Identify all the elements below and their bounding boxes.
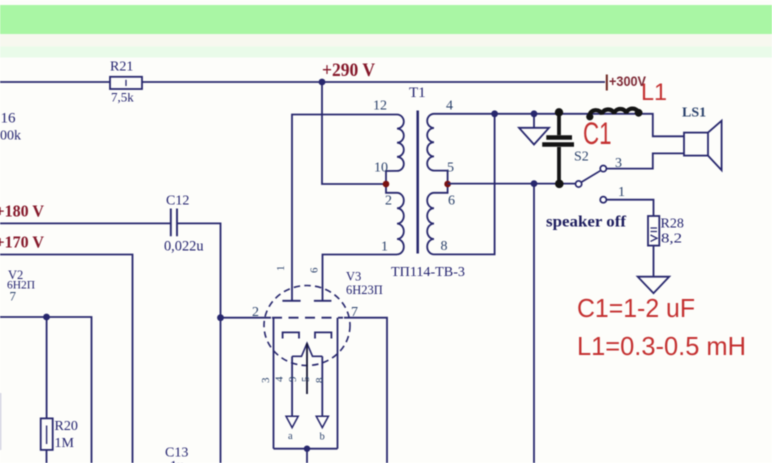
T1 secondary winding upper (pins 4-5) bbox=[427, 114, 447, 181]
junction dot ground branch bbox=[531, 110, 538, 117]
wire contact3 to speaker bottom bbox=[606, 153, 684, 168]
wire top rail left of R21 bbox=[0, 81, 110, 83]
junction grid node bbox=[217, 314, 224, 321]
T1 primary winding lower (pins 2-1) bbox=[386, 187, 404, 254]
svg-text:+180 V: +180 V bbox=[0, 202, 45, 221]
switch S2 pole bbox=[576, 181, 582, 187]
svg-text:R20: R20 bbox=[55, 419, 78, 434]
wire secondary top rail to speaker bbox=[434, 114, 684, 137]
wire +290V to primary centre tap bbox=[322, 82, 384, 184]
svg-text:S2: S2 bbox=[574, 150, 589, 165]
svg-text:6Н23П: 6Н23П bbox=[346, 283, 383, 297]
resistor R20 bbox=[41, 418, 53, 450]
svg-text:V3: V3 bbox=[346, 270, 361, 284]
svg-text:9: 9 bbox=[287, 376, 299, 382]
svg-text:LS1: LS1 bbox=[682, 106, 706, 121]
svg-text:+290 V: +290 V bbox=[322, 60, 375, 81]
V3 left anode plate bbox=[282, 300, 300, 302]
heater lead a bbox=[291, 356, 293, 416]
wire T1 pin12 to V3 left anode bbox=[292, 115, 397, 301]
wire grid node to V3 bbox=[221, 317, 272, 319]
svg-text:speaker off: speaker off bbox=[546, 214, 627, 231]
svg-text:+300V: +300V bbox=[609, 73, 647, 89]
svg-text:2: 2 bbox=[385, 194, 392, 209]
svg-text:T1: T1 bbox=[409, 85, 426, 101]
heater continuation arrow b bbox=[316, 416, 328, 427]
svg-text:4: 4 bbox=[274, 376, 286, 382]
capacitor C1 (hand-drawn black) bbox=[542, 108, 574, 188]
svg-text:6: 6 bbox=[309, 267, 321, 273]
ground (secondary top) bbox=[519, 114, 549, 145]
svg-text:+170 V: +170 V bbox=[0, 233, 45, 252]
junction secondary tap (red) bbox=[444, 181, 451, 188]
partial wire at left edge bbox=[0, 393, 2, 450]
T1 secondary winding lower (pins 6-8) bbox=[427, 187, 447, 254]
V3 heater centre tap (pin 9) bbox=[306, 343, 308, 394]
svg-text:a: a bbox=[288, 431, 293, 442]
wire to R20 bbox=[46, 317, 48, 418]
svg-text:C1=1-2 uF: C1=1-2 uF bbox=[577, 295, 695, 323]
svg-text:5: 5 bbox=[300, 376, 312, 382]
wire R28 to ground bbox=[653, 246, 655, 277]
wire contact1 to R28 bbox=[606, 200, 653, 216]
svg-text:R28: R28 bbox=[661, 217, 684, 232]
ground (R28) bbox=[638, 277, 670, 294]
junction R20 node bbox=[43, 314, 50, 321]
wire V3 cathode pin8 bbox=[337, 318, 339, 449]
wire V3 cathode pin3 bbox=[273, 318, 275, 449]
svg-text:4: 4 bbox=[446, 99, 453, 114]
wire secondary mid rail bbox=[448, 183, 576, 185]
svg-text:12: 12 bbox=[373, 99, 387, 114]
V3 cathode A bbox=[283, 332, 299, 338]
V3 cathode B bbox=[315, 332, 331, 338]
svg-text:1: 1 bbox=[275, 266, 287, 272]
switch contact 1 bbox=[600, 197, 606, 203]
svg-text:5: 5 bbox=[447, 161, 454, 176]
junction primary tap (red) bbox=[383, 181, 390, 188]
V3 right anode plate bbox=[314, 300, 332, 302]
wire T1 pin1 to V3 right anode bbox=[323, 255, 398, 301]
label +300V (red) with rail tick bbox=[606, 75, 608, 91]
wire V2 pin7 rail bbox=[0, 317, 92, 463]
V3 grid (dashed) bbox=[272, 317, 343, 319]
svg-text:2: 2 bbox=[252, 305, 259, 320]
svg-text:00k: 00k bbox=[0, 129, 21, 144]
speaker LS1 bbox=[684, 121, 722, 171]
second green banner bbox=[0, 34, 772, 47]
switch S2 blade bbox=[582, 171, 601, 182]
svg-text:1: 1 bbox=[618, 185, 625, 200]
junction cathode dot bbox=[304, 446, 310, 452]
wire +180V rail left of C12 bbox=[0, 222, 171, 224]
wire +170V rail bbox=[0, 255, 133, 463]
svg-text:C12: C12 bbox=[166, 194, 189, 209]
svg-text:3: 3 bbox=[260, 377, 272, 383]
V3 heater bbox=[292, 343, 322, 356]
svg-text:10: 10 bbox=[374, 161, 388, 176]
wire T1 pin8 up to pin4 rail bbox=[434, 114, 495, 255]
svg-text:16: 16 bbox=[1, 111, 17, 127]
wire V3 pin7 drop bbox=[344, 318, 387, 463]
svg-text:C1: C1 bbox=[583, 115, 612, 151]
svg-text:6: 6 bbox=[448, 194, 455, 209]
inductor L1 (hand-drawn black) bbox=[586, 109, 642, 121]
svg-text:R21: R21 bbox=[110, 60, 133, 75]
top green banner bbox=[0, 5, 772, 34]
svg-text:7,5k: 7,5k bbox=[111, 90, 134, 105]
heater lead b bbox=[321, 356, 323, 416]
wire top rail to +300V bbox=[142, 81, 605, 83]
svg-text:7: 7 bbox=[10, 289, 17, 304]
heater continuation arrow a bbox=[286, 416, 298, 427]
junction dot NFB branch bbox=[531, 180, 538, 187]
wire C12 to V3 grid node bbox=[177, 223, 221, 317]
wire R20 to bottom bbox=[46, 450, 48, 463]
capacitor C12 bbox=[171, 209, 177, 237]
tube V3 envelope bbox=[264, 286, 350, 366]
junction dot pin4/pin8 bbox=[491, 110, 498, 117]
junction +290V node bbox=[319, 79, 326, 86]
svg-text:1u: 1u bbox=[170, 459, 184, 463]
svg-text:7: 7 bbox=[351, 305, 358, 320]
svg-text:1M: 1M bbox=[55, 436, 75, 451]
transformer T1 core bbox=[416, 111, 419, 254]
wire NFB drop to bottom bbox=[533, 184, 535, 463]
svg-text:8: 8 bbox=[441, 239, 448, 254]
resistor R28 bbox=[648, 216, 659, 246]
T1 primary winding upper (pins 12-10) bbox=[386, 115, 404, 182]
svg-text:8,2: 8,2 bbox=[661, 232, 682, 247]
svg-text:b: b bbox=[320, 432, 325, 443]
wire cathode to bottom bbox=[306, 449, 308, 463]
svg-text:L1=0.3-0.5 mH: L1=0.3-0.5 mH bbox=[577, 331, 746, 361]
svg-text:8: 8 bbox=[314, 377, 326, 383]
svg-text:1: 1 bbox=[381, 240, 388, 255]
resistor R21 bbox=[110, 77, 142, 89]
switch contact 3 bbox=[600, 166, 606, 172]
svg-text:0,022u: 0,022u bbox=[164, 239, 204, 255]
wire cathode common bbox=[274, 448, 338, 450]
wire grid node down bbox=[220, 318, 222, 463]
svg-text:ТП114-ТВ-3: ТП114-ТВ-3 bbox=[391, 264, 465, 279]
